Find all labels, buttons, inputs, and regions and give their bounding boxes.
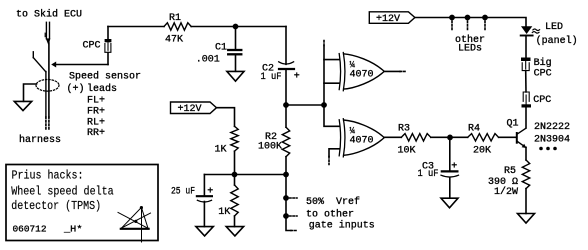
svg-text:LEDs: LEDs bbox=[458, 43, 482, 54]
svg-text:CPC: CPC bbox=[534, 68, 552, 79]
svg-text:1K: 1K bbox=[215, 144, 227, 155]
svg-text:¼: ¼ bbox=[350, 126, 356, 136]
wire R3 to node bbox=[431, 136, 468, 138]
svg-text:1/2W: 1/2W bbox=[494, 186, 518, 198]
node junction R3/R4/C3 bbox=[447, 135, 453, 141]
ground under C3 bbox=[441, 198, 458, 208]
svg-text:25 uF: 25 uF bbox=[171, 186, 195, 197]
svg-text:1K: 1K bbox=[218, 207, 230, 218]
logo antenna doodle bbox=[118, 206, 151, 242]
wire sensor pair left conductor bbox=[45, 72, 47, 118]
wire twisted pair to ECU bbox=[45, 22, 47, 39]
svg-text:to Skid ECU: to Skid ECU bbox=[16, 9, 82, 21]
wire XOR2 out to R3 bbox=[384, 136, 401, 138]
ground under 1K bbox=[226, 227, 243, 236]
wire R4 to Q1 base bbox=[499, 136, 516, 138]
wire CPC to R1 bbox=[108, 26, 164, 28]
wire node to XOR2 top input bbox=[324, 105, 340, 126]
svg-text:50% Vref: 50% Vref bbox=[306, 196, 360, 208]
wire node to XOR inputs bbox=[286, 104, 324, 106]
wire Vref distribution bbox=[286, 175, 291, 231]
svg-text:CPC: CPC bbox=[83, 41, 101, 52]
title box bbox=[6, 165, 158, 241]
svg-text:10K: 10K bbox=[398, 146, 416, 157]
wire R1 to node bbox=[191, 26, 286, 28]
svg-text:LED: LED bbox=[545, 22, 563, 33]
svg-text:R4: R4 bbox=[468, 124, 480, 135]
svg-text:detector (TPMS): detector (TPMS) bbox=[11, 199, 101, 213]
svg-text:R1: R1 bbox=[169, 13, 181, 24]
svg-text:(+): (+) bbox=[67, 83, 85, 95]
svg-text:Q1: Q1 bbox=[507, 119, 519, 130]
svg-text:Big: Big bbox=[534, 57, 552, 69]
ground under C1 bbox=[227, 71, 244, 81]
node other LED taps bbox=[449, 15, 455, 21]
svg-text:R5: R5 bbox=[504, 166, 516, 177]
svg-text:47K: 47K bbox=[165, 35, 183, 46]
svg-text:2N3904: 2N3904 bbox=[534, 135, 570, 146]
wire pair dotted continuation to harness bbox=[45, 117, 47, 131]
ground under 25uF bbox=[196, 227, 213, 236]
svg-text:(panel): (panel) bbox=[536, 35, 578, 47]
svg-text:Wheel speed delta: Wheel speed delta bbox=[11, 184, 114, 198]
svg-text:+: + bbox=[294, 71, 300, 82]
svg-text:+12V: +12V bbox=[178, 104, 202, 115]
svg-text:1 uF: 1 uF bbox=[418, 169, 439, 180]
power flag +12V left bbox=[171, 102, 217, 115]
svg-text:4070: 4070 bbox=[350, 70, 374, 81]
svg-text:CPC: CPC bbox=[533, 95, 551, 106]
xor gate U1b 4070 bbox=[339, 119, 384, 157]
svg-text:2N2222: 2N2222 bbox=[534, 122, 570, 133]
svg-text:+12V: +12V bbox=[376, 14, 400, 25]
LED D1 panel bbox=[521, 26, 532, 34]
wire node to C2 bbox=[285, 27, 287, 65]
wire +12V rail to LED bbox=[415, 18, 526, 27]
svg-text:20K: 20K bbox=[473, 146, 491, 157]
svg-text:100K: 100K bbox=[258, 142, 282, 153]
svg-text:1 uF: 1 uF bbox=[261, 72, 282, 83]
wire XOR2 bottom stub bbox=[329, 149, 340, 157]
svg-text:FL+: FL+ bbox=[87, 96, 105, 107]
ground under R5 bbox=[518, 214, 535, 224]
wire +12V to 1K bbox=[217, 108, 235, 127]
svg-text:Speed sensor: Speed sensor bbox=[69, 71, 141, 83]
wire arrow into sensor pair from CPC bbox=[51, 62, 56, 68]
svg-text:FR+: FR+ bbox=[87, 107, 105, 118]
svg-text:.001: .001 bbox=[196, 54, 220, 65]
ground bbox=[14, 101, 31, 110]
node junction C2/R2 bbox=[283, 102, 289, 108]
node pickup loop (dotted ellipse) bbox=[36, 80, 59, 92]
wire ground lead from loop bbox=[24, 84, 37, 101]
svg-text:060712: 060712 bbox=[13, 224, 47, 235]
power flag +12V right bbox=[369, 12, 415, 25]
node junction divider bbox=[232, 172, 238, 178]
svg-text:harness: harness bbox=[19, 134, 61, 146]
svg-text:leads: leads bbox=[87, 83, 117, 95]
svg-text:to other: to other bbox=[306, 208, 354, 220]
svg-text:R3: R3 bbox=[398, 124, 410, 135]
svg-text:_H*: _H* bbox=[63, 224, 83, 235]
node junction R1/C1 bbox=[233, 24, 239, 30]
wire XOR1 output bbox=[384, 70, 400, 72]
xor gate U1a 4070 bbox=[339, 53, 384, 91]
svg-text:C1: C1 bbox=[215, 43, 227, 54]
wire pair merge taper bbox=[46, 38, 51, 44]
svg-text:4070: 4070 bbox=[350, 136, 374, 147]
svg-text:gate inputs: gate inputs bbox=[309, 220, 375, 232]
svg-text:¼: ¼ bbox=[350, 60, 356, 70]
svg-text:Prius hacks:: Prius hacks: bbox=[12, 169, 84, 183]
svg-text:RL+: RL+ bbox=[87, 117, 105, 128]
node junction Vref bbox=[283, 172, 289, 178]
svg-text:RR+: RR+ bbox=[87, 128, 105, 139]
wire Vref bus bbox=[204, 174, 286, 176]
wire tap splice diagonal bbox=[32, 52, 34, 58]
